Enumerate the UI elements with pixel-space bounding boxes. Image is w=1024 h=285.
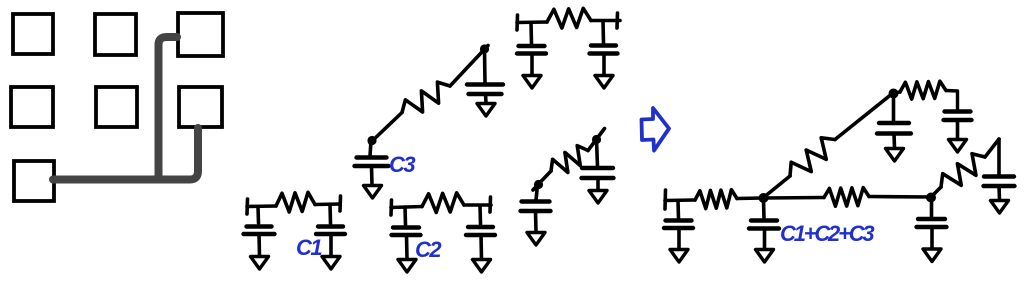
node tick left C1 bbox=[245, 199, 249, 214]
wire bbox=[930, 198, 934, 218]
node tick right C2 bbox=[488, 197, 492, 212]
resistor R (mid-right diagonal) bbox=[551, 146, 588, 173]
arrow (transform) bbox=[642, 108, 670, 151]
wire top-pi left bbox=[517, 20, 547, 24]
wire node1 to R2 bbox=[763, 196, 824, 200]
resistor R (C2 segment) bbox=[422, 193, 464, 213]
node dot 2 bbox=[926, 193, 936, 203]
svg-text:C2: C2 bbox=[415, 237, 442, 262]
node dot C3 top bbox=[480, 44, 489, 53]
wire bbox=[930, 227, 934, 249]
node tick left top-pi bbox=[515, 15, 519, 30]
wire bbox=[536, 185, 538, 200]
ground bbox=[251, 257, 269, 270]
wire C2 right drop bbox=[478, 206, 482, 225]
capacitor C1+C2+C3 bbox=[751, 218, 777, 222]
resistor R (C3 diagonal) bbox=[402, 82, 450, 112]
node dot C3 bottom bbox=[367, 136, 376, 145]
ground bbox=[670, 250, 688, 263]
ground bbox=[589, 191, 607, 204]
wire C3 diagonal upper bbox=[450, 46, 488, 87]
wire top-pi right bbox=[591, 19, 620, 23]
wire combined left bbox=[665, 198, 695, 202]
wire top-pi left drop bbox=[529, 23, 533, 45]
ground bbox=[527, 233, 545, 246]
wire bbox=[483, 50, 487, 83]
wire C2 left drop bbox=[403, 207, 407, 225]
wire bbox=[956, 120, 960, 139]
wire into node 1 bbox=[737, 196, 763, 200]
node dot 1 (merged node) bbox=[759, 193, 769, 203]
svg-text:C1+C2+C3: C1+C2+C3 bbox=[780, 221, 874, 246]
floorplan block B2 bbox=[96, 87, 137, 127]
wire bbox=[677, 228, 681, 249]
ground bbox=[595, 76, 613, 89]
svg-text:C3: C3 bbox=[389, 152, 415, 177]
floorplan block C1 driver bbox=[14, 161, 54, 201]
wire R2 to node2 bbox=[869, 195, 931, 199]
wire bbox=[763, 229, 767, 250]
capacitor mid-right upper bbox=[582, 166, 613, 170]
floorplan block A3 bbox=[178, 13, 223, 56]
capacitor C1 right bbox=[318, 224, 343, 228]
wire trunk vertical+top stub bbox=[159, 37, 178, 178]
wire C2 right bbox=[464, 203, 491, 207]
wire C1 right bbox=[315, 202, 340, 206]
wire diagonal upper bbox=[835, 93, 893, 140]
wire bbox=[597, 140, 598, 167]
resistor R4 (combined top) bbox=[900, 81, 946, 99]
wire bbox=[530, 54, 534, 76]
wire top-pi right drop bbox=[601, 21, 605, 43]
wire C2 left bbox=[391, 207, 422, 208]
wire mid-right diagonal bbox=[539, 171, 551, 184]
wire C1 left bbox=[247, 204, 276, 208]
capacitor below node 2 bbox=[918, 217, 945, 221]
wire peak down bbox=[997, 139, 1001, 175]
wire bbox=[997, 186, 1001, 200]
wire mid-right diagonal upper bbox=[588, 129, 605, 151]
node dot mid-right top bbox=[592, 135, 601, 144]
wire bbox=[534, 211, 538, 232]
capacitor below top node bbox=[879, 121, 909, 125]
wire C1 right drop bbox=[328, 205, 332, 224]
wire top node to R4 bbox=[894, 92, 901, 93]
svg-text:C1: C1 bbox=[296, 235, 322, 260]
capacitor far-right bbox=[984, 174, 1014, 178]
ground bbox=[923, 249, 941, 262]
floorplan block B1 bbox=[11, 87, 53, 127]
node tick right C1 bbox=[338, 196, 342, 211]
ground bbox=[991, 201, 1009, 214]
resistor R1 (combined left) bbox=[695, 190, 737, 209]
wire C1 left drop bbox=[256, 207, 260, 224]
wire bbox=[257, 234, 261, 256]
wire R4 right + corner down bbox=[946, 91, 958, 111]
resistor R (C1 segment) bbox=[276, 192, 315, 212]
capacitor C2 left bbox=[393, 225, 419, 229]
capacitor C1 left bbox=[247, 224, 272, 228]
resistor R5 (combined right diagonal) bbox=[941, 154, 985, 187]
wire bbox=[762, 199, 766, 219]
capacitor top-right bbox=[945, 109, 971, 113]
node dot mid-right bottom bbox=[534, 180, 543, 189]
floorplan block A2 bbox=[95, 14, 136, 55]
wire bbox=[892, 134, 896, 149]
ground bbox=[473, 260, 491, 273]
wire C3 diagonal lower bbox=[370, 113, 402, 144]
resistor R (top-pi) bbox=[547, 8, 591, 28]
ground bbox=[398, 260, 416, 273]
wire bbox=[602, 54, 606, 76]
ground bbox=[886, 149, 904, 162]
wire left cap drop bbox=[676, 201, 680, 220]
wire diagonal node2 up bbox=[933, 187, 941, 195]
capacitor top-pi left bbox=[519, 44, 545, 48]
wire bbox=[596, 178, 600, 190]
ground bbox=[523, 76, 541, 89]
capacitor C2 right bbox=[468, 225, 493, 229]
ground bbox=[949, 140, 967, 153]
wire bbox=[405, 235, 409, 259]
resistor R3 (combined diagonal) bbox=[790, 138, 835, 176]
node tick left C2 bbox=[389, 200, 393, 215]
ground bbox=[322, 257, 340, 270]
capacitor top-pi right bbox=[591, 43, 616, 47]
node tick far-left combined bbox=[663, 190, 667, 209]
wire diagonal node1 to top node bbox=[766, 176, 790, 196]
node dot top bbox=[889, 89, 899, 99]
capacitor mid-right lower bbox=[522, 199, 550, 203]
wire mid-right diagonal lower stub bbox=[533, 184, 539, 191]
capacitor at C3 top node bbox=[467, 82, 503, 86]
capacitor (combined far-left) bbox=[666, 218, 692, 222]
capacitor C3 bbox=[357, 155, 387, 159]
ground bbox=[364, 186, 382, 199]
wire trunk horizontal+right stub bbox=[53, 128, 198, 180]
wire bbox=[370, 141, 371, 156]
wire bbox=[484, 94, 488, 103]
node tick right top-pi bbox=[615, 13, 619, 28]
wire bbox=[479, 235, 483, 259]
ground bbox=[477, 104, 495, 117]
resistor R2 (combined middle) bbox=[824, 188, 869, 207]
ground bbox=[756, 250, 774, 263]
wire bbox=[370, 166, 374, 185]
wire bbox=[329, 234, 333, 256]
floorplan block A1 bbox=[13, 14, 53, 54]
wire bbox=[892, 94, 896, 122]
floorplan block B3 bbox=[179, 87, 222, 127]
wire diagonal to peak bbox=[985, 139, 999, 157]
